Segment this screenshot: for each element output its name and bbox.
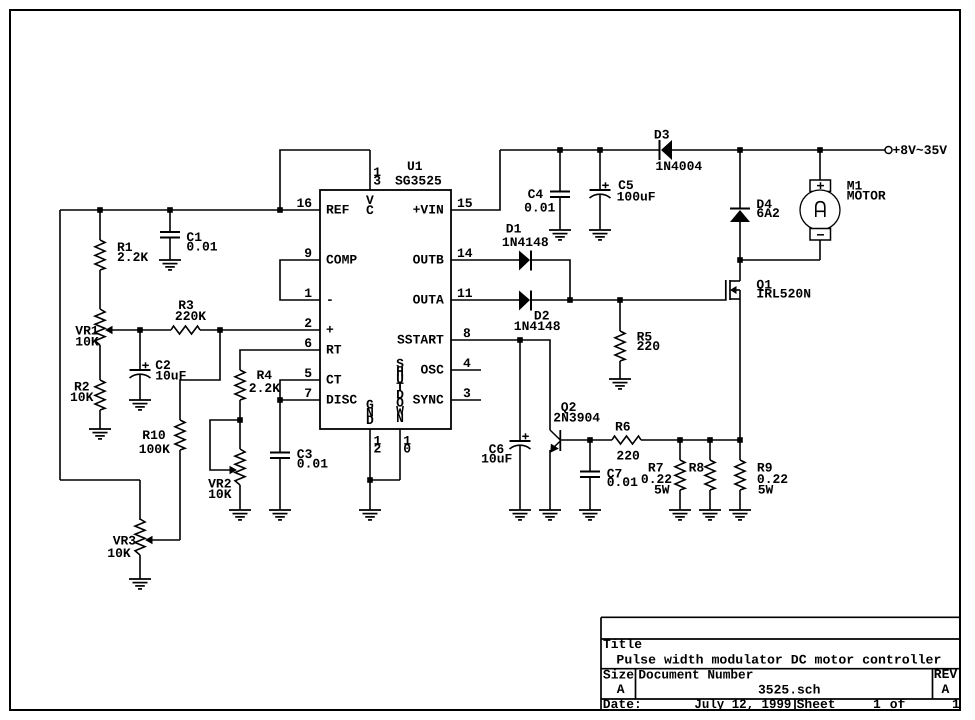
- svg-text:Pulse width modulator DC motor: Pulse width modulator DC motor controlle…: [616, 653, 941, 668]
- svg-text:6: 6: [304, 336, 312, 351]
- potentiometer VR2: [208, 420, 245, 510]
- svg-text:DISC: DISC: [326, 393, 357, 408]
- junction REF/VC loop: [277, 207, 283, 213]
- svg-text:SG3525: SG3525: [395, 174, 442, 189]
- svg-text:16: 16: [297, 196, 313, 211]
- svg-text:CT: CT: [326, 373, 342, 388]
- svg-text:IRL520N: IRL520N: [756, 287, 811, 302]
- U1 pin names: [326, 193, 444, 428]
- junction wiper/C2: [137, 327, 143, 333]
- svg-text:10K: 10K: [70, 390, 94, 405]
- ground VR2: [229, 510, 251, 520]
- svg-text:15: 15: [457, 196, 473, 211]
- svg-text:14: 14: [457, 246, 473, 261]
- diode D4 6A2 freewheel: [730, 150, 780, 260]
- U1 pin numbers: [297, 165, 473, 456]
- svg-text:3: 3: [463, 386, 471, 401]
- ground R7: [669, 510, 691, 520]
- svg-text:2.2K: 2.2K: [117, 250, 148, 265]
- resistor R10: [139, 420, 185, 540]
- svg-text:8: 8: [463, 326, 471, 341]
- svg-text:10uF: 10uF: [155, 369, 186, 384]
- junction REF/C1: [167, 207, 173, 213]
- svg-text:1N4148: 1N4148: [502, 235, 549, 250]
- wire CT (pin 5): [280, 380, 320, 400]
- wire REF bus (pin 16): [60, 210, 320, 520]
- svg-text:1: 1: [304, 286, 312, 301]
- svg-text:D: D: [366, 413, 374, 428]
- junction rail/D4: [737, 147, 743, 153]
- svg-text:Size: Size: [603, 667, 634, 682]
- diode D2 1N4148: [514, 291, 561, 335]
- svg-text:-: -: [326, 293, 334, 308]
- resistor R7: [641, 440, 685, 510]
- junction REF/R1: [97, 207, 103, 213]
- svg-text:MOTOR: MOTOR: [847, 188, 886, 203]
- U1 pin 3 SYNC stub: [451, 399, 481, 401]
- svg-text:220: 220: [616, 449, 640, 464]
- capacitor C1: [160, 210, 218, 260]
- svg-text:A: A: [617, 682, 625, 697]
- transistor Q2 2N3904: [550, 400, 600, 510]
- svg-text:5: 5: [304, 366, 312, 381]
- svg-text:5W: 5W: [758, 482, 774, 497]
- ground VR3: [129, 579, 151, 589]
- motor M1: [800, 150, 886, 260]
- resistor R2: [70, 345, 105, 429]
- resistor R1: [95, 210, 148, 309]
- svg-text:1: 1: [952, 697, 960, 712]
- resistor R5: [615, 300, 660, 379]
- wire V+ rail left of D3: [500, 149, 659, 151]
- svg-text:COMP: COMP: [326, 253, 357, 268]
- op-amp U1 SG3525 PWM IC body: [320, 159, 451, 429]
- junction rail/C5: [597, 147, 603, 153]
- svg-text:3: 3: [373, 173, 381, 188]
- capacitor C2: [130, 330, 187, 400]
- svg-text:OSC: OSC: [421, 363, 445, 378]
- junction D4/Q1 drain: [737, 257, 743, 263]
- svg-text:10K: 10K: [75, 334, 99, 349]
- ground C6: [509, 510, 531, 520]
- junction R9/Q1 source: [737, 437, 743, 443]
- wire OUTB (pin 14): [451, 259, 519, 261]
- svg-text:100K: 100K: [139, 442, 170, 457]
- ground R9: [729, 510, 751, 520]
- svg-text:0.01: 0.01: [297, 456, 328, 471]
- wire V+ rail right of D3: [672, 149, 885, 151]
- svg-text:OUTB: OUTB: [413, 253, 444, 268]
- junction D1/OUTA: [567, 297, 573, 303]
- svg-text:2: 2: [304, 316, 312, 331]
- svg-text:Title: Title: [603, 637, 642, 652]
- svg-text:0.01: 0.01: [524, 201, 555, 216]
- wire R10 to VR3 wiper: [152, 539, 180, 541]
- resistor R6: [612, 419, 641, 463]
- title block text: [603, 637, 960, 712]
- ground R2: [89, 429, 111, 439]
- wire D1 cathode to OUTA net: [532, 260, 570, 300]
- svg-text:July 12, 1999: July 12, 1999: [694, 697, 791, 712]
- wire pin10 to pin12: [370, 479, 400, 481]
- svg-text:R6: R6: [615, 419, 631, 434]
- svg-text:10uF: 10uF: [481, 451, 512, 466]
- svg-text:0.01: 0.01: [607, 475, 638, 490]
- title block: [601, 617, 960, 710]
- junction base/C7: [587, 437, 593, 443]
- svg-text:1N4148: 1N4148: [514, 319, 561, 334]
- capacitor C7: [580, 440, 638, 510]
- svg-text:100uF: 100uF: [617, 190, 656, 205]
- wire IC ground drop: [369, 480, 371, 510]
- wire +VIN (pin 15) riser: [451, 150, 500, 210]
- svg-text:1N4004: 1N4004: [655, 159, 702, 174]
- svg-text:3525.sch: 3525.sch: [758, 683, 821, 698]
- junction wiper/R10 branch: [217, 327, 223, 333]
- svg-text:5W: 5W: [654, 482, 670, 497]
- capacitor C4: [524, 150, 570, 230]
- U1 pin 13 VC stub: [369, 150, 371, 190]
- svg-text:REV: REV: [934, 667, 958, 682]
- junction pins 10-12: [367, 477, 373, 483]
- svg-text:0: 0: [403, 441, 411, 456]
- svg-text:+: +: [326, 323, 334, 338]
- wire motor return to drain node: [740, 259, 820, 261]
- svg-text:SSTART: SSTART: [397, 333, 444, 348]
- potentiometer VR3: [107, 519, 152, 579]
- svg-text:U1: U1: [407, 159, 423, 174]
- svg-text:2: 2: [374, 441, 382, 456]
- svg-text:2.2K: 2.2K: [249, 381, 280, 396]
- svg-text:REF: REF: [326, 203, 350, 218]
- junction R7: [677, 437, 683, 443]
- svg-text:Document Number: Document Number: [638, 667, 753, 682]
- svg-text:1: 1: [873, 697, 881, 712]
- svg-text:R10: R10: [142, 428, 166, 443]
- wire Q2 base to R6: [560, 439, 612, 441]
- svg-text:2N3904: 2N3904: [553, 411, 600, 426]
- wire wiper VR1 to pin 2 (+): [112, 329, 320, 331]
- wire COMP to pin1 loop: [280, 260, 320, 300]
- node +8V~35V supply terminal: [885, 143, 947, 158]
- ground C3: [269, 510, 291, 520]
- wire SSTART (pin 8): [451, 340, 550, 430]
- diode D3 1N4004: [654, 128, 703, 175]
- wire pin2 branch to R10: [180, 330, 220, 420]
- resistor R9: [735, 440, 788, 510]
- svg-text:Date:: Date:: [603, 697, 642, 712]
- ground C7: [579, 510, 601, 520]
- wire DISC (pin 7): [280, 399, 320, 401]
- svg-text:C: C: [366, 203, 374, 218]
- svg-text:OUTA: OUTA: [413, 293, 444, 308]
- ground C2: [129, 400, 151, 410]
- junction R8: [707, 437, 713, 443]
- resistor R3: [171, 298, 206, 334]
- junction rail/C4: [557, 147, 563, 153]
- svg-text:9: 9: [304, 246, 312, 261]
- svg-text:D3: D3: [654, 128, 670, 143]
- ground Q2 emitter: [539, 510, 561, 520]
- svg-text:11: 11: [457, 286, 473, 301]
- svg-text:SYNC: SYNC: [413, 393, 444, 408]
- transistor Q1 IRL520N MOSFET: [620, 260, 811, 440]
- resistor R8: [689, 440, 715, 510]
- wire VC loop pin16 to pin13: [280, 150, 370, 210]
- U1 pin 12 GND stub: [369, 429, 371, 480]
- svg-text:R8: R8: [689, 461, 705, 476]
- svg-text:6A2: 6A2: [756, 206, 780, 221]
- ground C5: [589, 230, 611, 240]
- svg-text:+8V~35V: +8V~35V: [893, 143, 948, 158]
- ground R8: [699, 510, 721, 520]
- ground IC GND: [359, 510, 381, 520]
- capacitor C6: [481, 340, 530, 510]
- svg-text:A: A: [942, 682, 950, 697]
- junction OUTA/R5: [617, 297, 623, 303]
- junction R4/VR2: [237, 417, 243, 423]
- svg-text:220: 220: [637, 339, 661, 354]
- svg-text:10K: 10K: [208, 487, 232, 502]
- ground C1: [159, 260, 181, 270]
- ground C4: [549, 230, 571, 240]
- ground R5: [609, 379, 631, 389]
- wire R6 to sense resistors: [641, 439, 742, 441]
- svg-text:10K: 10K: [107, 546, 131, 561]
- U1 pin 10 SHUTDOWN stub: [399, 429, 401, 480]
- junction rail/M1: [817, 147, 823, 153]
- junction CT-DISC/C3: [277, 397, 283, 403]
- svg-text:of: of: [890, 697, 906, 712]
- capacitor C3: [270, 400, 328, 510]
- wire RT (pin 6) to R4: [240, 350, 320, 370]
- svg-text:220K: 220K: [175, 309, 206, 324]
- svg-text:0.01: 0.01: [186, 240, 217, 255]
- svg-text:N: N: [396, 411, 404, 426]
- potentiometer VR1: [75, 309, 112, 349]
- resistor R4: [235, 368, 280, 420]
- svg-text:4: 4: [463, 356, 471, 371]
- wire OUTA (pin 11): [451, 299, 519, 301]
- svg-text:RT: RT: [326, 343, 342, 358]
- diode D1 1N4148: [502, 222, 549, 271]
- svg-text:7: 7: [304, 386, 312, 401]
- svg-text:+VIN: +VIN: [413, 203, 444, 218]
- wire D2 cathode to Q1 gate: [532, 299, 620, 301]
- U1 pin 4 OSC stub: [451, 369, 481, 371]
- svg-text:Sheet: Sheet: [797, 697, 836, 712]
- junction SSTART/C6: [517, 337, 523, 343]
- capacitor C5: [590, 150, 656, 230]
